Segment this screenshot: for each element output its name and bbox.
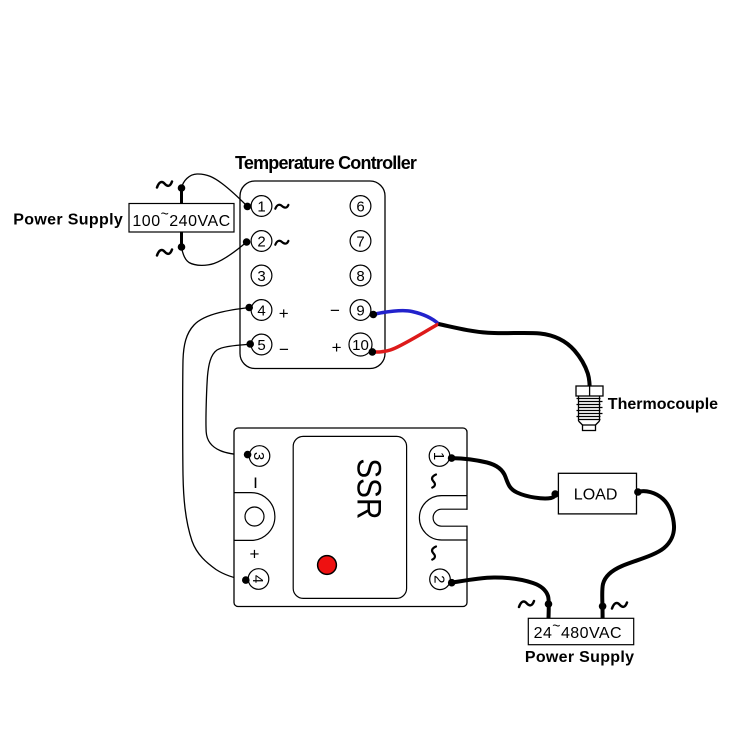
svg-text:4: 4 [257, 302, 265, 319]
svg-text:Power Supply: Power Supply [525, 649, 634, 666]
svg-text:2: 2 [431, 575, 448, 583]
svg-text:+: + [279, 304, 289, 323]
svg-text:1: 1 [257, 198, 265, 215]
svg-text:8: 8 [356, 268, 364, 285]
svg-text:9: 9 [356, 302, 364, 319]
svg-text:5: 5 [257, 337, 265, 354]
svg-text:6: 6 [356, 198, 364, 215]
svg-text:3: 3 [257, 268, 265, 285]
svg-text:4: 4 [249, 575, 266, 583]
svg-text:2: 2 [257, 233, 265, 250]
svg-text:Temperature Controller: Temperature Controller [235, 153, 417, 173]
svg-text:−: − [330, 301, 340, 320]
svg-text:−: − [279, 340, 289, 359]
svg-text:7: 7 [356, 233, 364, 250]
svg-text:Thermocouple: Thermocouple [608, 396, 718, 413]
svg-text:1: 1 [430, 452, 447, 460]
svg-text:Power Supply: Power Supply [13, 212, 123, 229]
svg-text:3: 3 [250, 452, 267, 460]
svg-text:SSR: SSR [350, 458, 388, 519]
svg-text:+: + [332, 338, 342, 357]
svg-text:LOAD: LOAD [574, 486, 618, 503]
svg-text:+: + [250, 545, 260, 564]
svg-text:10: 10 [352, 337, 369, 354]
